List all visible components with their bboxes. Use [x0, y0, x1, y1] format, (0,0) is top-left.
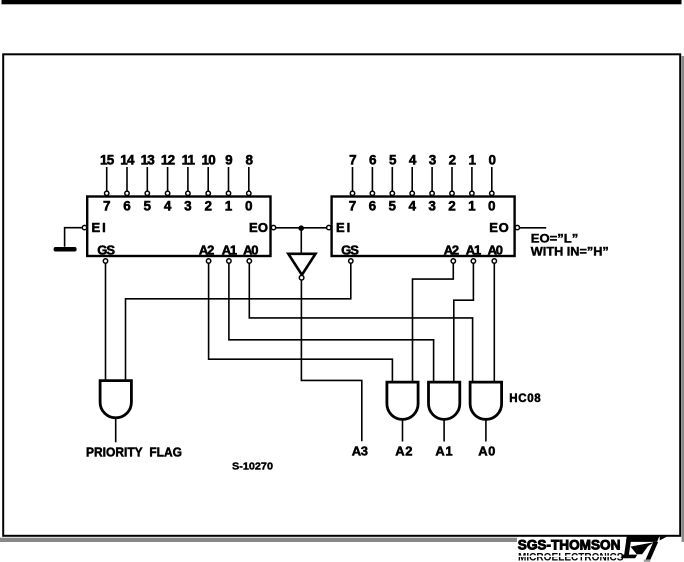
U2 input pin bubble 0 [490, 191, 494, 195]
svg-text:15: 15 [100, 153, 115, 168]
wire G4 output [485, 419, 487, 441]
wire inverter to node A3 [301, 280, 361, 441]
svg-text:A0: A0 [488, 243, 503, 258]
svg-text:EO: EO [489, 220, 509, 235]
wire input 6 to U2 [371, 167, 373, 191]
U1 input pin bubble 10 [206, 191, 210, 195]
svg-text:0: 0 [488, 153, 495, 168]
wire A0(U2) to gate G4 [493, 263, 495, 383]
U2 input pin bubble 2 [450, 191, 454, 195]
svg-text:A1: A1 [435, 444, 453, 459]
wire EO(U1) to EI(U2) [276, 227, 327, 229]
wire input 4 to U2 [411, 167, 413, 191]
wire A0(U1) to gate G4 [249, 263, 472, 383]
wire input 15 to U1 [106, 167, 108, 191]
svg-text:GS: GS [97, 243, 115, 258]
svg-text:12: 12 [161, 153, 175, 168]
U2 input pin bubble 4 [410, 191, 414, 195]
svg-text:A3: A3 [352, 444, 368, 459]
svg-text:A2: A2 [444, 243, 459, 258]
wire GS(U2) to flag gate [126, 263, 351, 381]
U2 input pin bubble 3 [430, 191, 434, 195]
svg-text:EO=”L”: EO=”L” [531, 233, 579, 245]
U1 input pin bubble 15 [105, 191, 109, 195]
svg-text:6: 6 [369, 153, 377, 168]
svg-text:7: 7 [103, 199, 111, 214]
U1 A1 pin bubble [227, 259, 231, 263]
svg-text:2: 2 [449, 153, 456, 168]
svg-text:WITH IN=”H”: WITH IN=”H” [531, 247, 609, 259]
wire input 13 to U1 [146, 167, 148, 191]
svg-text:3: 3 [428, 199, 436, 214]
ST logo mark [621, 536, 667, 561]
wire G2 output [402, 419, 404, 441]
U2 A2 pin bubble [451, 259, 455, 263]
svg-text:4: 4 [409, 153, 417, 168]
svg-text:A0: A0 [243, 243, 258, 258]
svg-text:4: 4 [408, 199, 416, 214]
U2 input pin bubble 7 [350, 191, 354, 195]
wire junction to inverter U3 [300, 228, 302, 252]
svg-text:EO: EO [249, 220, 268, 235]
U1 input pin bubble 14 [125, 191, 129, 195]
svg-text:A1: A1 [222, 243, 237, 258]
svg-text:A2: A2 [199, 243, 214, 258]
U1 input pin bubble 8 [247, 191, 251, 195]
svg-text:2: 2 [204, 199, 212, 214]
svg-text:HC08: HC08 [509, 393, 541, 405]
svg-text:PRIORITY FLAG: PRIORITY FLAG [86, 444, 182, 459]
wire input 7 to U2 [352, 167, 354, 191]
wire GS(U1) to flag gate [105, 263, 107, 381]
svg-text:EI: EI [336, 220, 352, 235]
encoder U2 (inputs 7-0) [332, 197, 515, 257]
U2 A1 pin bubble [471, 259, 475, 263]
svg-text:3: 3 [184, 199, 192, 214]
svg-text:A2: A2 [395, 444, 413, 459]
wire input 8 to U1 [248, 167, 250, 191]
svg-text:6: 6 [369, 199, 377, 214]
AND gate G2 [387, 382, 418, 419]
svg-text:5: 5 [144, 199, 152, 214]
svg-text:6: 6 [123, 199, 131, 214]
wire input 12 to U1 [167, 167, 169, 191]
svg-text:1: 1 [469, 153, 477, 168]
U1 A0 pin bubble [247, 259, 251, 263]
wire input 11 to U1 [187, 167, 189, 191]
svg-text:11: 11 [182, 153, 196, 168]
frame shadow right [682, 56, 684, 542]
U1 input pin bubble 11 [186, 191, 190, 195]
svg-text:5: 5 [389, 153, 397, 168]
U1 GS pin bubble [103, 259, 107, 263]
svg-text:5: 5 [389, 199, 397, 214]
svg-text:GS: GS [341, 243, 359, 258]
wire U1 EI to ground [65, 228, 83, 247]
wire EO(U2) output [520, 227, 546, 229]
svg-text:13: 13 [141, 153, 156, 168]
svg-text:8: 8 [245, 153, 253, 168]
wire input 10 to U1 [207, 167, 209, 191]
junction node [298, 225, 304, 231]
svg-text:7: 7 [349, 199, 357, 214]
wire input 1 to U2 [471, 167, 473, 191]
ground [54, 247, 77, 252]
wire G3 output [443, 419, 445, 441]
wire A2(U2) to gate G2 [413, 263, 454, 383]
svg-text:7: 7 [349, 153, 356, 168]
svg-text:1: 1 [468, 199, 476, 214]
U1 EO pin bubble [271, 225, 275, 229]
wire input 14 to U1 [126, 167, 128, 191]
U1 EI pin bubble [82, 225, 86, 229]
AND gate G1 priority flag [100, 381, 131, 418]
U1 input pin bubble 13 [145, 191, 149, 195]
wire A1(U2) to gate G3 [454, 263, 474, 383]
svg-text:14: 14 [120, 153, 135, 168]
inverter U3 output bubble [299, 275, 304, 280]
svg-text:SGS-THOMSON: SGS-THOMSON [518, 537, 621, 552]
svg-text:0: 0 [245, 199, 253, 214]
svg-text:0: 0 [488, 199, 496, 214]
U2 input pin bubble 5 [390, 191, 394, 195]
wire input 2 to U2 [451, 167, 453, 191]
encoder U1 (inputs 15-8) [87, 197, 270, 257]
U2 EO pin bubble [515, 225, 519, 229]
U2 GS pin bubble [349, 259, 353, 263]
svg-text:S-10270: S-10270 [232, 462, 274, 473]
svg-text:EI: EI [92, 220, 108, 235]
top rule bar [2, 0, 682, 4]
U2 input pin bubble 6 [370, 191, 374, 195]
frame shadow bottom [0, 538, 517, 542]
wire input 3 to U2 [431, 167, 433, 191]
U2 input pin bubble 1 [470, 191, 474, 195]
svg-text:A0: A0 [478, 444, 496, 459]
svg-text:4: 4 [164, 199, 172, 214]
U1 input pin bubble 9 [226, 191, 230, 195]
AND gate G4 [470, 382, 502, 419]
wire input 9 to U1 [228, 167, 230, 191]
svg-text:3: 3 [429, 153, 437, 168]
U2 EI pin bubble [327, 225, 331, 229]
U1 A2 pin bubble [206, 259, 210, 263]
wire A1(U1) to gate G3 [229, 263, 434, 383]
wire input 0 to U2 [491, 167, 493, 191]
svg-text:1: 1 [225, 199, 233, 214]
wire input 5 to U2 [391, 167, 393, 191]
inverter U3 [288, 254, 315, 275]
AND gate G3 [429, 382, 460, 419]
svg-text:A1: A1 [466, 243, 481, 258]
svg-text:9: 9 [225, 153, 232, 168]
svg-text:10: 10 [201, 153, 215, 168]
wire A2(U1) to gate G2 [209, 263, 393, 383]
U2 A0 pin bubble [492, 259, 496, 263]
wire G1 output [115, 418, 117, 443]
svg-text:2: 2 [448, 199, 456, 214]
U1 input pin bubble 12 [165, 191, 169, 195]
